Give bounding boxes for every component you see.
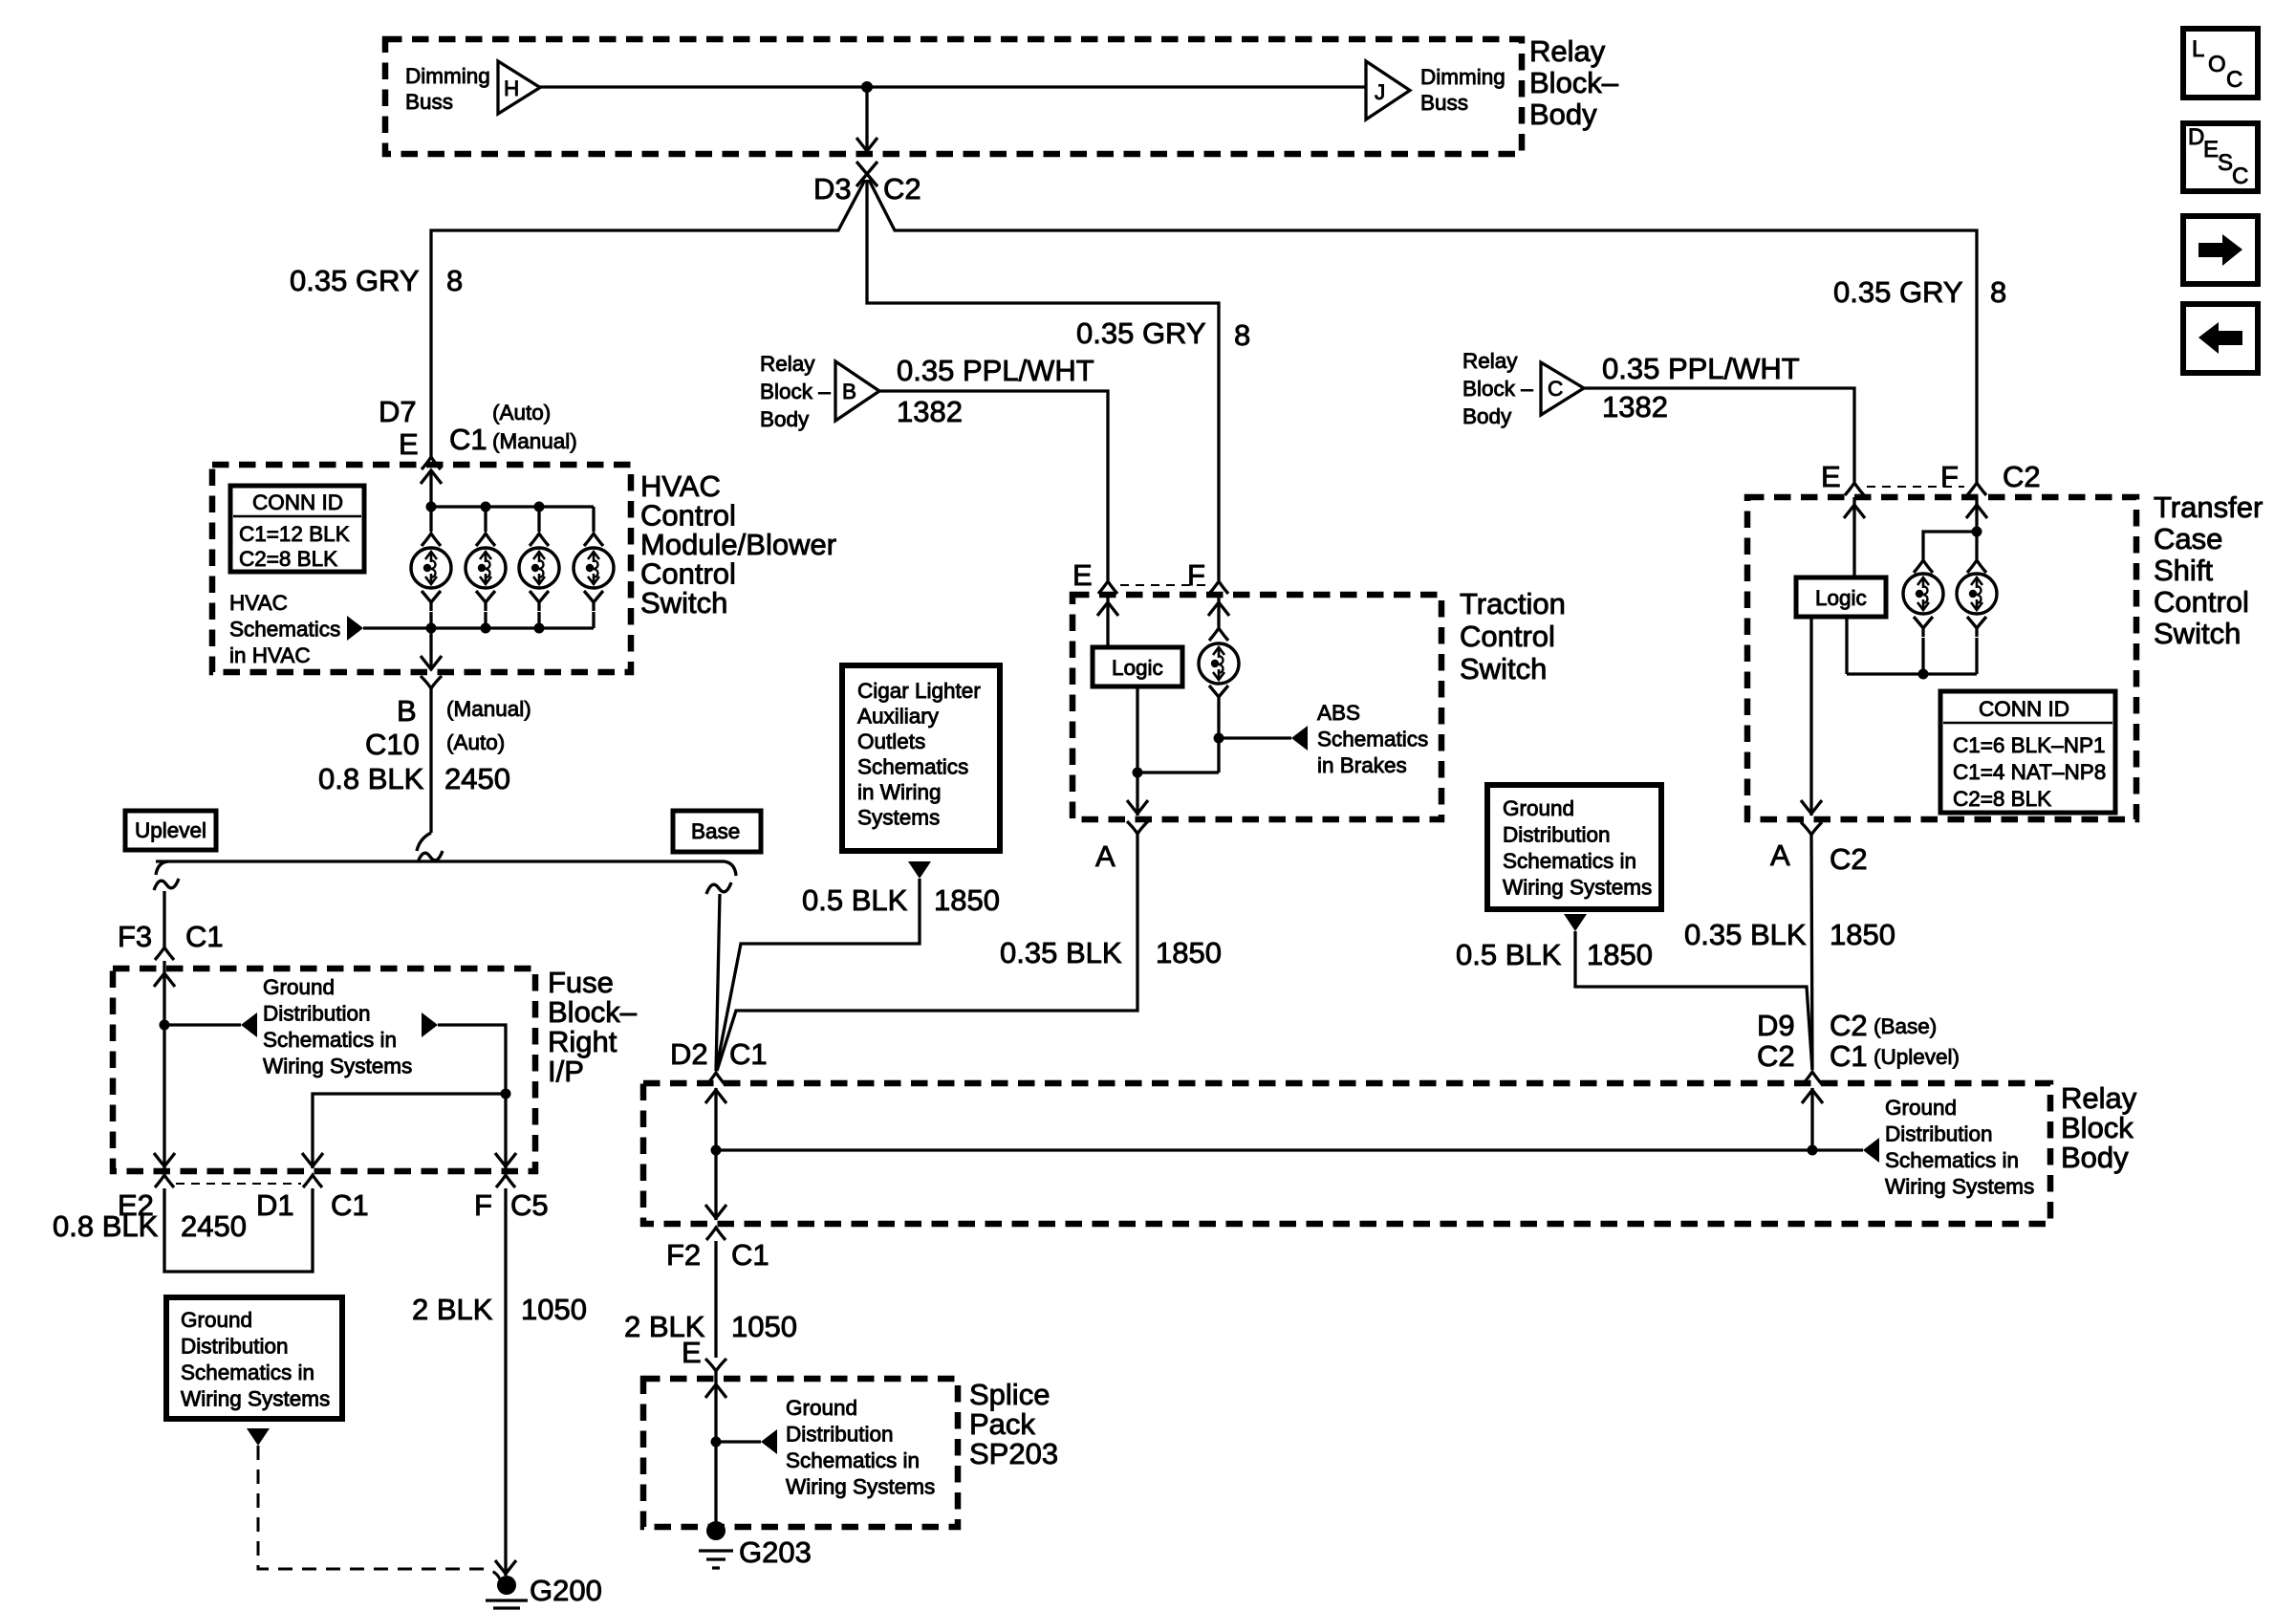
wire F C5 down to G200 (495, 1188, 516, 1576)
label D1 (256, 1188, 294, 1222)
svg-text:D2: D2 (670, 1037, 708, 1071)
label 1850 (mid) (1156, 936, 1222, 969)
label relay block body (C) (1462, 349, 1533, 428)
svg-text:Ground: Ground (181, 1308, 252, 1332)
label C2 (Base) (1830, 1009, 1937, 1042)
svg-text:H: H (504, 76, 519, 100)
connector A C2 (transfer) (1801, 822, 1822, 835)
wire traction E to logic (1097, 595, 1118, 647)
connector lamp bottom (traction) (1209, 686, 1228, 706)
svg-text:Transfer: Transfer (2154, 490, 2263, 524)
svg-text:Shift: Shift (2154, 554, 2213, 587)
wire middle branch to traction F (867, 180, 1219, 580)
svg-text:1850: 1850 (934, 883, 1000, 917)
svg-text:(Base): (Base) (1874, 1014, 1937, 1038)
svg-text:1382: 1382 (1602, 390, 1668, 424)
svg-text:0.5 BLK: 0.5 BLK (1456, 938, 1562, 971)
svg-text:Schematics: Schematics (229, 618, 340, 642)
splice pack title (969, 1378, 1058, 1470)
label 0.5 BLK (mid) (802, 883, 908, 917)
svg-text:0.35 GRY: 0.35 GRY (1833, 275, 1963, 309)
svg-text:S: S (2218, 150, 2233, 176)
svg-text:C2=8 BLK: C2=8 BLK (239, 547, 337, 571)
svg-text:C1: C1 (1830, 1039, 1868, 1073)
connector A (traction) (1127, 821, 1148, 834)
svg-text:Body: Body (1462, 404, 1512, 428)
connector lamp2 top (transfer) (1967, 560, 1986, 573)
hvac bottom bus (363, 612, 594, 628)
label G200 (530, 1574, 602, 1607)
wire 0.35 BLK 1850 from A to D2 (717, 834, 1137, 1071)
wire 0.5 BLK 1850 cigar to D2 (716, 879, 920, 1071)
label F3 (118, 920, 152, 953)
svg-text:Outlets: Outlets (857, 729, 925, 753)
connector D1 C1 (303, 1175, 322, 1187)
junction dot relay left (711, 1145, 722, 1156)
label C10 (365, 728, 420, 761)
label C1 (D1) (331, 1188, 369, 1222)
label D7 (379, 395, 417, 428)
svg-text:1850: 1850 (1830, 918, 1895, 951)
traction title (1460, 587, 1566, 686)
label 0.5 BLK (right) (1456, 938, 1562, 971)
svg-text:Body: Body (1529, 98, 1597, 131)
wire F2 to splice (714, 1241, 717, 1358)
svg-text:F3: F3 (118, 920, 152, 953)
label C5 (510, 1188, 549, 1222)
svg-text:Logic: Logic (1815, 586, 1867, 610)
transfer lamp bus (1847, 617, 1977, 674)
svg-text:F: F (474, 1188, 492, 1222)
svg-text:A: A (1095, 839, 1116, 873)
label 8 (left) (446, 264, 463, 297)
svg-text:Auxiliary: Auxiliary (857, 705, 940, 729)
svg-text:0.5 BLK: 0.5 BLK (802, 883, 908, 917)
svg-text:Ground: Ground (1503, 796, 1574, 820)
svg-text:1850: 1850 (1156, 936, 1222, 969)
label E (splice) (682, 1336, 702, 1369)
svg-text:C5: C5 (510, 1188, 549, 1222)
junction dot hvac bottom 3 (534, 623, 545, 634)
svg-text:8: 8 (1234, 318, 1250, 352)
junction dot hvac bus 1 (426, 502, 437, 512)
relay block body (top) dashed box (385, 39, 1522, 154)
svg-text:SP203: SP203 (969, 1437, 1058, 1470)
label 1850 (cigar) (934, 883, 1000, 917)
svg-text:C1: C1 (185, 920, 224, 953)
wire F3 through fuse block (154, 961, 175, 1168)
hvac top bus (431, 505, 594, 508)
svg-text:Body: Body (2061, 1141, 2129, 1174)
svg-text:L: L (2192, 36, 2204, 62)
wire E2 to D1 u-shape (164, 1188, 313, 1272)
connector E (splice) (705, 1359, 726, 1371)
svg-text:Block: Block (2061, 1111, 2134, 1144)
connector lamp2 top (476, 533, 495, 546)
splice pack dashed box (643, 1379, 958, 1527)
svg-text:Ground: Ground (786, 1396, 857, 1420)
label 1850 (right ground) (1587, 938, 1653, 971)
svg-text:0.35 GRY: 0.35 GRY (290, 264, 420, 297)
svg-text:F: F (1940, 460, 1959, 493)
label C1 (Uplevel) (1830, 1039, 1960, 1073)
svg-text:1850: 1850 (1587, 938, 1653, 971)
lamp L3 hvac (519, 548, 559, 588)
svg-text:C2: C2 (1757, 1039, 1795, 1073)
label F (fuse) (474, 1188, 492, 1222)
svg-text:in HVAC: in HVAC (229, 643, 311, 667)
connector E (traction) (1098, 581, 1117, 594)
connector lamp1 bottom (transfer) (1914, 617, 1933, 637)
label 0.35 BLK (mid) (1000, 936, 1122, 969)
label 2 BLK (left) (412, 1293, 493, 1326)
label C1 (F3) (185, 920, 224, 953)
label E (transfer) (1821, 460, 1841, 493)
connector D9 C2 (1803, 1072, 1822, 1084)
svg-text:0.35 BLK: 0.35 BLK (1000, 936, 1122, 969)
svg-text:ABS: ABS (1317, 701, 1360, 725)
label A (traction) (1095, 839, 1116, 873)
svg-text:1382: 1382 (897, 395, 963, 428)
label 0.35 GRY (middle) (1076, 316, 1206, 350)
off-page triangle H (498, 61, 540, 114)
connector E (transfer) (1845, 483, 1864, 495)
label dimming buss (right) (1420, 65, 1505, 115)
svg-text:C: C (2226, 67, 2242, 93)
svg-text:Block–: Block– (548, 995, 638, 1029)
label ground distribution (relay) (1885, 1096, 2034, 1199)
svg-text:G200: G200 (530, 1574, 602, 1607)
svg-text:Distribution: Distribution (181, 1335, 289, 1359)
junction dot hvac bottom 1 (426, 623, 437, 634)
svg-text:0.8 BLK: 0.8 BLK (53, 1209, 159, 1243)
svg-text:Wiring Systems: Wiring Systems (263, 1055, 412, 1078)
svg-text:Right: Right (548, 1025, 617, 1058)
svg-text:Buss: Buss (1420, 91, 1468, 115)
label box Base (673, 811, 761, 852)
svg-text:C2: C2 (1830, 1009, 1868, 1042)
wire break squiggle at split (417, 833, 443, 862)
svg-text:Distribution: Distribution (263, 1002, 371, 1026)
lamp T2 transfer (1957, 574, 1997, 614)
svg-text:Pack: Pack (969, 1407, 1035, 1441)
ground G200 (486, 1576, 528, 1608)
svg-text:Systems: Systems (857, 806, 940, 830)
junction dot relay right (1808, 1145, 1818, 1156)
svg-text:Dimming: Dimming (405, 64, 490, 88)
svg-text:F2: F2 (666, 1238, 701, 1272)
junction dot fuse left (160, 1020, 170, 1031)
svg-text:J: J (1375, 80, 1385, 104)
svg-text:C1=4 NAT–NP8: C1=4 NAT–NP8 (1953, 760, 2106, 784)
svg-text:1050: 1050 (521, 1293, 587, 1326)
thin dashed connector line traction E-F (1120, 584, 1206, 586)
label 1382 (897, 395, 963, 428)
fuse block right IP dashed box (113, 969, 535, 1171)
thin dashed connector line E2-D1 (176, 1183, 301, 1185)
reference triangle to F C5 wire (422, 1012, 438, 1037)
label 0.35 GRY (right) (1833, 275, 1963, 309)
svg-text:Wiring Systems: Wiring Systems (1885, 1175, 2034, 1199)
label C1 (F2) (731, 1238, 769, 1272)
connector lamp3 top (530, 533, 549, 546)
connector D3 C2 (856, 162, 877, 186)
wire over to D1 (302, 1094, 506, 1168)
transfer case shift control switch dashed box (1747, 497, 2136, 819)
label 1850 (right) (1830, 918, 1895, 951)
label ground distribution (splice) (786, 1396, 935, 1499)
label 1382 (right) (1602, 390, 1668, 424)
transfer title (2154, 490, 2263, 650)
wire D9 into relay block (1802, 1088, 1823, 1150)
label 0.35 GRY (left) (290, 264, 420, 297)
wire 0.35 PPL/WHT to transfer E (1584, 388, 1854, 482)
svg-text:CONN ID: CONN ID (1979, 697, 2069, 721)
svg-text:Schematics in: Schematics in (181, 1361, 314, 1384)
wire uplevel down to F3 (162, 891, 165, 947)
logic box (traction) (1093, 647, 1182, 686)
relay block body (bottom) dashed box (643, 1083, 2050, 1224)
svg-text:Ground: Ground (1885, 1096, 1957, 1120)
svg-text:C1: C1 (731, 1238, 769, 1272)
label 0.35 PPL/WHT (right) (1602, 352, 1800, 385)
connector lamp3 bottom (530, 591, 549, 611)
connector F3 C1 (155, 947, 174, 960)
label 2450 (444, 762, 510, 795)
svg-text:Fuse: Fuse (548, 966, 614, 999)
junction dot logic-lamp (1133, 768, 1143, 778)
HVAC control module dashed box (212, 465, 631, 672)
label 0.8 BLK (left) (53, 1209, 159, 1243)
wire D2 through relay block (705, 1088, 726, 1220)
label 8 (middle) (1234, 318, 1250, 352)
svg-text:2450: 2450 (181, 1209, 247, 1243)
wire E into splice to ground (705, 1371, 726, 1528)
svg-text:D3: D3 (813, 172, 852, 206)
wire H to J (540, 85, 1366, 88)
svg-text:Switch: Switch (1460, 652, 1547, 686)
svg-text:O: O (2208, 52, 2226, 77)
svg-text:G203: G203 (739, 1535, 812, 1569)
svg-text:Wiring Systems: Wiring Systems (786, 1475, 935, 1499)
svg-text:E: E (1821, 460, 1841, 493)
svg-text:0.35 GRY: 0.35 GRY (1076, 316, 1206, 350)
svg-text:C10: C10 (365, 728, 420, 761)
label dimming buss (left) (405, 64, 490, 114)
svg-text:D7: D7 (379, 395, 417, 428)
svg-text:0.8 BLK: 0.8 BLK (318, 762, 424, 795)
svg-text:Wiring Systems: Wiring Systems (1503, 876, 1652, 900)
junction dot transfer lamps (1972, 527, 1982, 537)
wire to ground dist reference (relay) (1812, 1148, 1863, 1151)
label B (397, 694, 417, 728)
connector lamp1 bottom (422, 591, 441, 611)
svg-text:Switch: Switch (2154, 617, 2241, 650)
lamp L2 hvac (466, 548, 506, 588)
wire logic down to A (1127, 686, 1148, 816)
label 0.35 PPL/WHT (897, 354, 1094, 387)
svg-text:Cigar Lighter: Cigar Lighter (857, 679, 981, 703)
svg-text:Schematics in: Schematics in (263, 1028, 397, 1052)
CONN ID box (transfer) (1940, 691, 2115, 813)
label C2 (transfer top) (2003, 460, 2041, 493)
svg-text:Logic: Logic (1112, 656, 1163, 680)
reference triangle ground dist (splice) (761, 1429, 777, 1454)
wire transfer E to logic (1844, 497, 1865, 577)
label (Manual) mid (446, 697, 531, 721)
svg-text:E: E (1072, 558, 1093, 592)
svg-text:Block–: Block– (1529, 66, 1619, 99)
relay block body (top) title (1529, 34, 1619, 131)
svg-text:in Brakes: in Brakes (1317, 753, 1407, 777)
ground distribution box (bottom left) (166, 1297, 342, 1419)
svg-text:2450: 2450 (444, 762, 510, 795)
svg-text:D1: D1 (256, 1188, 294, 1222)
svg-text:Relay: Relay (1462, 349, 1518, 373)
connector lamp4 bottom (584, 591, 603, 611)
label HVAC schematics in HVAC (229, 591, 340, 667)
wire from reference right to C5 (438, 1025, 516, 1168)
svg-text:Control: Control (1460, 620, 1555, 653)
wire 0.35 PPL/WHT to traction E (879, 391, 1108, 580)
label C2 (transfer A) (1830, 842, 1868, 876)
svg-text:I/P: I/P (548, 1055, 584, 1088)
cigar lighter reference box (842, 665, 1000, 851)
svg-text:C2: C2 (2003, 460, 2041, 493)
svg-text:Distribution: Distribution (1503, 823, 1611, 847)
svg-text:Relay: Relay (1529, 34, 1606, 68)
svg-text:(Manual): (Manual) (492, 429, 577, 453)
wire transfer F down (1966, 497, 1987, 559)
label 1050 (mid) (731, 1310, 797, 1343)
svg-text:C1: C1 (331, 1188, 369, 1222)
svg-text:E: E (682, 1336, 702, 1369)
svg-text:Uplevel: Uplevel (135, 818, 206, 842)
svg-text:2 BLK: 2 BLK (412, 1293, 493, 1326)
icon box DESC (2183, 123, 2258, 191)
label C1 (hvac pin) (449, 423, 487, 456)
label F (transfer) (1940, 460, 1959, 493)
svg-text:0.35 BLK: 0.35 BLK (1684, 918, 1807, 951)
svg-text:C2=8 BLK: C2=8 BLK (1953, 787, 2051, 811)
label D3 (813, 172, 852, 206)
connector F (traction) (1209, 581, 1228, 594)
svg-text:Relay: Relay (2061, 1081, 2137, 1115)
icon box arrow right (2183, 216, 2258, 284)
svg-text:D: D (2188, 124, 2204, 150)
CONN ID box (HVAC) (230, 486, 364, 572)
wire left branch to HVAC E (431, 180, 865, 457)
label C2 (D9 left) (1757, 1039, 1795, 1073)
label box Uplevel (125, 811, 216, 850)
svg-text:C1: C1 (729, 1037, 768, 1071)
svg-text:CONN ID: CONN ID (252, 490, 343, 514)
label ground distribution (fuse) (263, 975, 412, 1078)
junction dot hvac bus 3 (534, 502, 545, 512)
svg-text:C2: C2 (883, 172, 921, 206)
svg-text:C1: C1 (449, 423, 487, 456)
label G203 (739, 1535, 812, 1569)
wire to ABS reference (1219, 736, 1291, 739)
svg-text:Control: Control (2154, 585, 2249, 619)
svg-text:Schematics: Schematics (857, 755, 968, 779)
lamp L1 hvac (411, 548, 451, 588)
label ABS schematics in brakes (1317, 701, 1428, 777)
wire lamp stub 3 (537, 507, 540, 532)
connector E2 (155, 1175, 174, 1187)
wire lamp stub 2 (484, 507, 487, 532)
svg-text:(Manual): (Manual) (446, 697, 531, 721)
svg-text:C: C (2232, 163, 2248, 189)
svg-text:B: B (842, 380, 856, 403)
relay ground bus (716, 1148, 1812, 1151)
svg-text:0.35 PPL/WHT: 0.35 PPL/WHT (897, 354, 1094, 387)
reference triangle ground dist (relay) (1863, 1138, 1879, 1163)
reference triangle down (cigar) (908, 861, 931, 879)
label 8 (right) (1990, 275, 2006, 309)
svg-text:C1=12 BLK: C1=12 BLK (239, 522, 350, 546)
lamp L4 hvac (574, 548, 614, 588)
junction dot abs branch (1214, 733, 1224, 744)
fuse block title (548, 966, 638, 1088)
HVAC title (640, 469, 836, 620)
junction dot fuse right (501, 1089, 511, 1099)
wire 0.5 BLK 1850 to D9 (1575, 931, 1812, 1070)
svg-text:C1=6 BLK–NP1: C1=6 BLK–NP1 (1953, 733, 2105, 757)
label E (hvac pin) (399, 427, 419, 461)
off-page triangle B (835, 361, 879, 421)
svg-text:Splice: Splice (969, 1378, 1050, 1411)
svg-text:Block –: Block – (1462, 377, 1533, 401)
svg-text:(Auto): (Auto) (446, 730, 505, 754)
svg-text:Ground: Ground (263, 975, 335, 999)
svg-text:in Wiring: in Wiring (857, 780, 942, 804)
svg-text:Distribution: Distribution (786, 1423, 894, 1447)
svg-text:C2: C2 (1830, 842, 1868, 876)
label 0.35 BLK (right) (1684, 918, 1807, 951)
connector F C2 (transfer) (1967, 483, 1986, 495)
svg-text:C: C (1548, 377, 1563, 401)
svg-text:D9: D9 (1757, 1009, 1795, 1042)
svg-text:Schematics in: Schematics in (1503, 849, 1636, 873)
bus left hook and squiggle (154, 861, 179, 890)
connector lamp1 top (transfer) (1914, 560, 1933, 573)
reference triangle to HVAC schematics (347, 616, 363, 641)
label F2 (666, 1238, 701, 1272)
wire base down to D2 (716, 894, 720, 1071)
svg-text:Block –: Block – (760, 380, 831, 403)
svg-text:Schematics in: Schematics in (786, 1448, 920, 1472)
svg-text:Case: Case (2154, 522, 2222, 555)
reference triangle down (right) (1564, 914, 1587, 931)
reference triangle ABS (1291, 726, 1308, 751)
wire junction down to box edge (856, 87, 877, 152)
lamp T1 transfer (1903, 574, 1943, 614)
label 0.8 BLK (318, 762, 424, 795)
svg-text:Distribution: Distribution (1885, 1122, 1993, 1146)
relay block body (bottom) title (2061, 1081, 2137, 1174)
svg-text:F: F (1187, 558, 1205, 592)
wire hvac main down exit (421, 628, 442, 670)
wire 0.8 BLK 2450 down to split (429, 688, 432, 833)
label A (transfer) (1770, 838, 1790, 872)
connector B C10 (421, 676, 442, 688)
connector E / D7 / C1 at HVAC (422, 457, 441, 469)
label C2 (D3) (883, 172, 921, 206)
label (Manual) top (492, 429, 577, 453)
connector F2 C1 (706, 1228, 726, 1240)
lamp traction (1199, 643, 1239, 684)
